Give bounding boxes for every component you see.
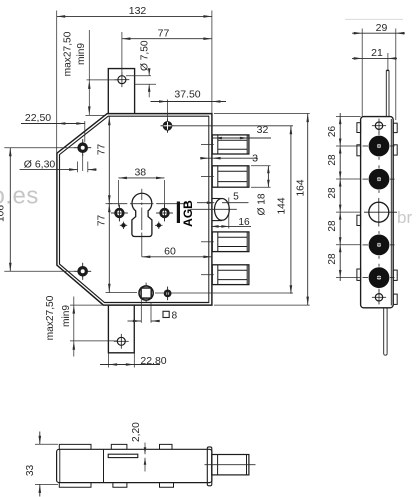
side clips left xyxy=(357,123,361,281)
dimension square 8 xyxy=(128,300,178,323)
dimension 29 xyxy=(352,22,405,120)
svg-text:min9: min9 xyxy=(61,305,72,327)
dimension 33 xyxy=(25,432,58,497)
svg-text:28: 28 xyxy=(327,253,338,265)
svg-text:28: 28 xyxy=(327,220,338,232)
svg-text:77: 77 xyxy=(158,27,170,39)
svg-text:60: 60 xyxy=(164,245,176,257)
svg-text:106: 106 xyxy=(0,205,7,222)
deadbolt 1 xyxy=(212,135,249,154)
svg-text:144: 144 xyxy=(277,197,288,214)
screw top centerline to 144 dim xyxy=(175,125,294,127)
svg-text:77: 77 xyxy=(97,144,108,156)
side clips right xyxy=(393,123,397,304)
side cylinder hole xyxy=(364,198,397,227)
svg-text:77: 77 xyxy=(97,215,108,227)
svg-text:22,50: 22,50 xyxy=(25,112,51,124)
bottom view top tabs xyxy=(59,444,172,449)
svg-text:38: 38 xyxy=(134,166,146,178)
svg-text:33: 33 xyxy=(25,465,36,477)
side screw bottom xyxy=(372,290,386,304)
svg-text:164: 164 xyxy=(296,179,307,196)
side rod bottom xyxy=(384,308,387,355)
dimension 60 xyxy=(142,245,212,258)
svg-text:2,20: 2,20 xyxy=(131,422,142,442)
cylinder fixing boss right xyxy=(156,205,173,222)
svg-text:max27,50: max27,50 xyxy=(45,295,56,340)
svg-text:32: 32 xyxy=(257,124,269,136)
lock case inner outline (cover plate) xyxy=(60,116,210,302)
svg-text:Ø 6,30: Ø 6,30 xyxy=(24,159,56,171)
flange hole Ø6,30 lower xyxy=(74,263,91,280)
watermark text fragment left xyxy=(0,183,39,210)
svg-text:28: 28 xyxy=(327,154,338,166)
bottom view bolt xyxy=(212,455,249,475)
dimension Ø18 bolt diameter xyxy=(251,166,271,216)
side bolt head 3 xyxy=(363,231,395,259)
svg-text:min9: min9 xyxy=(76,43,87,65)
bottom view bolt centerline xyxy=(205,464,256,466)
bottom mounting tab xyxy=(108,305,134,353)
dimension 2,20 slot xyxy=(131,422,146,472)
svg-text:5: 5 xyxy=(233,191,239,202)
top tab hole (Ø7,50) xyxy=(115,72,130,87)
extension line case right top xyxy=(211,11,213,114)
deadbolt 4 xyxy=(212,265,249,285)
cylinder centerline horizontal xyxy=(108,203,188,205)
svg-text:8: 8 xyxy=(172,310,178,321)
bottom tab hole xyxy=(114,334,129,349)
dimension Ø6,30 flange hole xyxy=(20,154,97,173)
side rod top xyxy=(386,70,389,116)
flange hole Ø6,30 upper xyxy=(74,139,91,156)
svg-text:br: br xyxy=(397,208,412,227)
svg-text:37.50: 37.50 xyxy=(174,88,200,100)
deadbolt 2 xyxy=(212,166,249,187)
svg-text:28: 28 xyxy=(327,187,338,199)
small pin left xyxy=(120,222,127,229)
deadbolt 3 xyxy=(212,232,249,252)
euro cylinder keyhole xyxy=(132,193,152,236)
watermark faint rule top right xyxy=(345,18,403,20)
lock case outer outline (octagon) xyxy=(57,114,212,306)
svg-text:29: 29 xyxy=(376,22,388,34)
faceplate edge lines (main view) xyxy=(208,116,210,302)
cylinder fixing boss left xyxy=(111,205,128,222)
bottom view bottom tabs xyxy=(59,483,173,488)
latch centerline xyxy=(191,208,237,210)
svg-text:21: 21 xyxy=(371,47,383,59)
bottom view body xyxy=(57,449,212,482)
top mounting tab xyxy=(108,69,134,114)
bottom view faceplate edge xyxy=(207,447,212,486)
dimension 5 latch xyxy=(197,191,249,204)
dimension 38 bosses xyxy=(118,166,164,206)
dimension 106 far left xyxy=(0,148,76,272)
svg-text:26: 26 xyxy=(327,126,338,138)
svg-text:Ø 7,50: Ø 7,50 xyxy=(140,40,151,71)
square follower 8mm xyxy=(139,283,153,303)
bottom view slot xyxy=(108,454,138,457)
dimension 37.50 xyxy=(151,88,227,120)
dimension 16 latch xyxy=(211,198,251,229)
side screw top xyxy=(372,119,386,133)
dimension 164 xyxy=(214,114,310,306)
dimension 144 xyxy=(277,126,293,294)
side bolt head 1 xyxy=(363,132,395,160)
bolt centerlines xyxy=(201,145,214,275)
dimension 132 top xyxy=(57,5,212,153)
dimension 32 bolt length xyxy=(212,124,271,140)
dimension 22.80 xyxy=(100,306,167,368)
dimension Ø7,50 tab hole xyxy=(126,40,156,97)
small pin right xyxy=(155,222,162,229)
dimension chain 26/28/28/28/28 xyxy=(327,113,360,281)
follower centerline xyxy=(106,292,294,294)
watermark text fragment right xyxy=(397,208,412,227)
faceplate screw top xyxy=(161,119,175,133)
side bolt head 4 xyxy=(363,264,395,292)
svg-text:Ø 18: Ø 18 xyxy=(257,193,268,215)
cylinder centerline vertical xyxy=(141,189,143,257)
latch bolt (oval) xyxy=(212,199,229,221)
svg-text:132: 132 xyxy=(129,5,147,17)
AGB logo xyxy=(177,200,195,227)
side view faceplate outline xyxy=(361,117,394,308)
dimension 77 / 77 left vertical xyxy=(97,117,113,293)
svg-text:22.80: 22.80 xyxy=(140,355,166,367)
dimension 21 xyxy=(352,47,397,70)
dimension max27,50 min9 top xyxy=(63,30,118,115)
dimension 77 top xyxy=(122,27,212,75)
svg-text:max27,50: max27,50 xyxy=(63,31,74,76)
dimension 3 faceplate thickness xyxy=(200,153,258,165)
faceplate screw bottom xyxy=(164,287,172,301)
side bolt head 2 xyxy=(363,165,395,193)
svg-text:AGB: AGB xyxy=(181,200,195,227)
dimension max27,50 min9 bottom xyxy=(45,295,117,356)
dimension 22,50 chamfer xyxy=(21,112,85,142)
